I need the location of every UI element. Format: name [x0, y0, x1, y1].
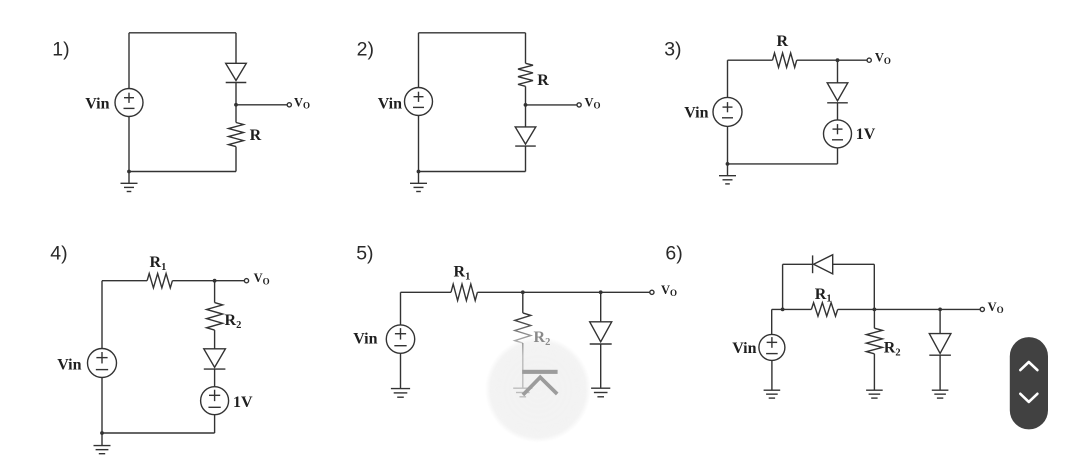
svg-text:R: R — [250, 127, 262, 144]
svg-text:Vin: Vin — [353, 330, 377, 347]
svg-text:VO: VO — [254, 271, 270, 286]
svg-text:6): 6) — [665, 242, 682, 264]
svg-text:R1: R1 — [815, 286, 832, 305]
svg-text:2): 2) — [357, 39, 374, 61]
svg-text:VO: VO — [988, 300, 1004, 315]
svg-text:Vin: Vin — [732, 340, 756, 357]
svg-text:Vin: Vin — [57, 356, 81, 373]
svg-text:1V: 1V — [856, 126, 876, 143]
svg-text:R: R — [537, 72, 549, 89]
svg-text:3): 3) — [664, 39, 681, 61]
svg-text:R2: R2 — [534, 329, 551, 348]
svg-text:R: R — [777, 33, 789, 50]
svg-text:R2: R2 — [225, 312, 242, 331]
svg-text:1V: 1V — [233, 394, 253, 411]
svg-text:VO: VO — [585, 95, 601, 110]
svg-text:R1: R1 — [454, 264, 471, 283]
svg-text:VO: VO — [875, 51, 891, 66]
svg-text:Vin: Vin — [684, 105, 708, 122]
svg-text:1): 1) — [52, 39, 69, 61]
svg-text:4): 4) — [50, 242, 67, 264]
svg-text:Vin: Vin — [85, 96, 109, 113]
svg-text:5): 5) — [356, 242, 373, 264]
svg-text:VO: VO — [294, 95, 310, 110]
svg-text:R2: R2 — [884, 340, 901, 359]
svg-text:Vin: Vin — [378, 96, 402, 113]
svg-text:VO: VO — [661, 283, 677, 298]
svg-text:R1: R1 — [150, 254, 167, 273]
